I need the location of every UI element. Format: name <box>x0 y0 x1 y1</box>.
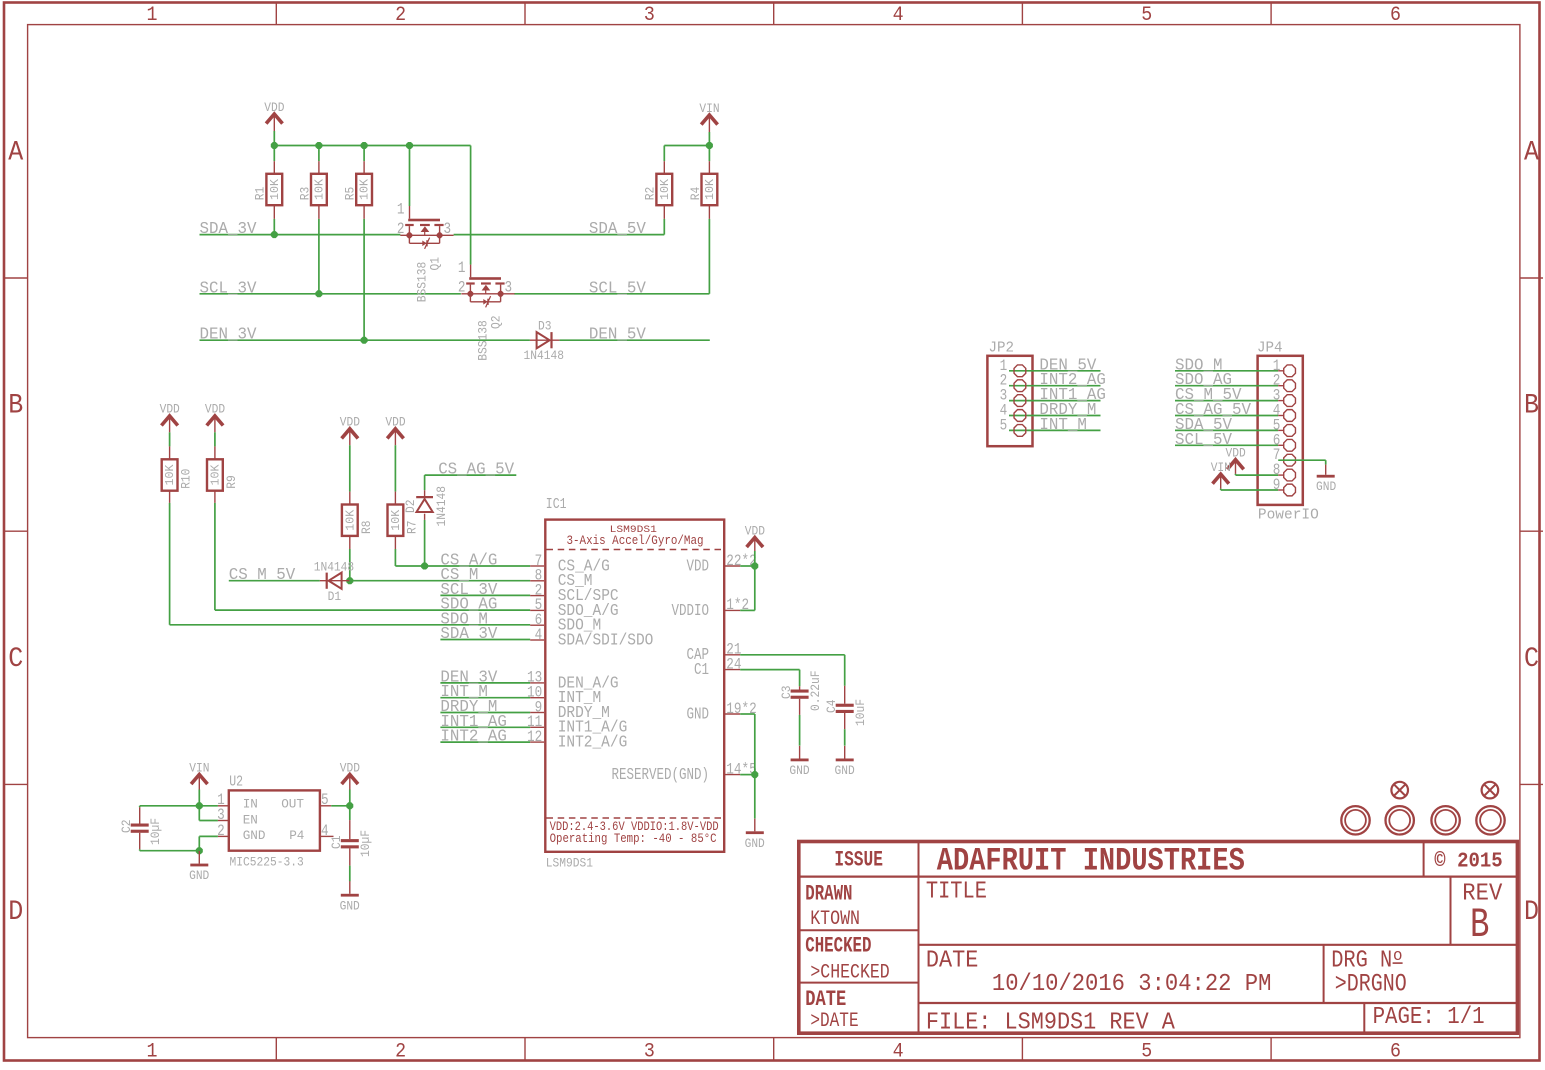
svg-text:INT2_A/G: INT2_A/G <box>558 734 628 752</box>
svg-text:10K: 10K <box>390 510 403 531</box>
svg-text:6: 6 <box>1390 1041 1401 1064</box>
svg-text:DEN_3V: DEN_3V <box>200 326 257 344</box>
svg-text:2: 2 <box>395 4 406 27</box>
svg-text:R2: R2 <box>643 187 658 201</box>
svg-text:D: D <box>8 897 23 928</box>
svg-text:GND: GND <box>789 763 809 778</box>
svg-text:1*2: 1*2 <box>726 596 749 614</box>
svg-text:C: C <box>8 644 23 675</box>
svg-text:10/10/2016 3:04:22 PM: 10/10/2016 3:04:22 PM <box>992 971 1272 998</box>
svg-text:JP2: JP2 <box>989 340 1015 357</box>
svg-text:6: 6 <box>1390 4 1401 27</box>
svg-text:5: 5 <box>1141 1041 1152 1064</box>
svg-text:D1: D1 <box>328 589 342 604</box>
svg-text:C1: C1 <box>694 661 709 679</box>
svg-text:R1: R1 <box>253 187 268 201</box>
svg-text:10K: 10K <box>164 464 177 485</box>
svg-text:R9: R9 <box>224 475 239 489</box>
svg-text:SCL_3V: SCL_3V <box>200 279 257 297</box>
svg-text:12: 12 <box>527 728 542 746</box>
svg-text:R10: R10 <box>179 469 194 489</box>
svg-text:D2: D2 <box>403 500 418 514</box>
svg-text:IC1: IC1 <box>546 496 567 513</box>
svg-text:10K: 10K <box>659 179 672 200</box>
svg-text:R8: R8 <box>359 521 374 535</box>
svg-text:GND: GND <box>687 705 710 723</box>
svg-text:RESERVED(GND): RESERVED(GND) <box>612 766 710 784</box>
svg-text:B: B <box>8 391 23 422</box>
svg-text:B: B <box>1470 901 1489 949</box>
svg-text:4: 4 <box>893 4 904 27</box>
svg-text:10K: 10K <box>269 179 282 200</box>
svg-text:5: 5 <box>1000 416 1008 434</box>
svg-text:DEN_5V: DEN_5V <box>589 326 646 344</box>
svg-text:10K: 10K <box>209 464 222 485</box>
svg-text:GND: GND <box>1316 479 1336 494</box>
svg-text:2: 2 <box>458 279 466 297</box>
svg-text:10uF: 10uF <box>853 699 868 726</box>
svg-text:R4: R4 <box>688 187 703 201</box>
svg-text:Q1: Q1 <box>428 257 443 271</box>
svg-text:GND: GND <box>243 828 266 843</box>
svg-text:C1: C1 <box>329 835 344 849</box>
svg-text:Q2: Q2 <box>489 316 504 330</box>
svg-text:10K: 10K <box>704 179 717 200</box>
svg-text:10µF: 10µF <box>148 818 163 845</box>
svg-text:INT_M: INT_M <box>1039 416 1087 434</box>
svg-text:SDA_3V: SDA_3V <box>200 220 257 238</box>
svg-text:DATE: DATE <box>926 947 978 974</box>
svg-text:JP4: JP4 <box>1257 340 1283 357</box>
svg-text:C: C <box>1524 644 1539 675</box>
svg-text:5: 5 <box>1141 4 1152 27</box>
svg-text:PAGE: 1/1: PAGE: 1/1 <box>1373 1004 1485 1031</box>
svg-text:>DRGNO: >DRGNO <box>1335 969 1407 998</box>
svg-text:GND: GND <box>835 763 855 778</box>
svg-text:1N4148: 1N4148 <box>314 559 355 574</box>
svg-text:1: 1 <box>147 1041 158 1064</box>
svg-text:DRAWN: DRAWN <box>805 882 852 907</box>
svg-text:P4: P4 <box>289 828 304 843</box>
svg-text:ISSUE: ISSUE <box>834 848 883 873</box>
svg-text:24: 24 <box>726 655 741 673</box>
svg-text:GND: GND <box>189 868 209 883</box>
svg-text:D3: D3 <box>538 319 552 334</box>
svg-text:1N4148: 1N4148 <box>434 486 449 527</box>
svg-text:B: B <box>1524 391 1539 422</box>
svg-text:2: 2 <box>395 1041 406 1064</box>
svg-text:SCL_5V: SCL_5V <box>589 279 646 297</box>
svg-text:>CHECKED: >CHECKED <box>810 962 889 985</box>
svg-text:Operating Temp: -40 - 85°C: Operating Temp: -40 - 85°C <box>550 831 717 846</box>
svg-text:OUT: OUT <box>281 797 304 812</box>
svg-text:SDA_5V: SDA_5V <box>589 220 646 238</box>
svg-text:A: A <box>1524 137 1539 168</box>
svg-text:U2: U2 <box>229 773 243 790</box>
svg-text:10µF: 10µF <box>358 830 373 857</box>
svg-text:D: D <box>1524 897 1539 928</box>
svg-text:3: 3 <box>505 279 513 297</box>
svg-text:3: 3 <box>644 1041 655 1064</box>
svg-text:GND: GND <box>745 836 765 851</box>
svg-text:TITLE: TITLE <box>926 879 987 906</box>
svg-text:SDA/SDI/SDO: SDA/SDI/SDO <box>558 631 654 649</box>
svg-text:>DATE: >DATE <box>810 1010 858 1033</box>
svg-text:VDD: VDD <box>687 557 710 575</box>
svg-text:C3: C3 <box>779 686 794 700</box>
svg-text:2: 2 <box>217 822 225 840</box>
svg-text:SCL_5V: SCL_5V <box>1175 431 1232 449</box>
svg-text:R3: R3 <box>297 187 312 201</box>
svg-text:4: 4 <box>321 822 329 840</box>
svg-text:A: A <box>8 137 23 168</box>
svg-text:INT2_AG: INT2_AG <box>440 728 507 746</box>
svg-text:DATE: DATE <box>805 987 846 1012</box>
svg-text:ADAFRUIT INDUSTRIES: ADAFRUIT INDUSTRIES <box>937 843 1245 880</box>
svg-text:3: 3 <box>444 220 452 238</box>
svg-text:4: 4 <box>893 1041 904 1064</box>
svg-text:1: 1 <box>147 4 158 27</box>
svg-text:10K: 10K <box>344 510 357 531</box>
svg-text:0.22uF: 0.22uF <box>808 671 823 712</box>
svg-text:10K: 10K <box>359 179 372 200</box>
svg-text:PowerIO: PowerIO <box>1258 507 1319 524</box>
svg-text:3-Axis Accel/Gyro/Mag: 3-Axis Accel/Gyro/Mag <box>567 533 704 548</box>
svg-text:2: 2 <box>397 220 405 238</box>
svg-text:EN: EN <box>243 812 258 827</box>
svg-text:FILE: LSM9DS1 REV A: FILE: LSM9DS1 REV A <box>926 1009 1176 1036</box>
svg-text:IN: IN <box>243 797 258 812</box>
svg-text:MIC5225-3.3: MIC5225-3.3 <box>230 855 304 870</box>
svg-text:3: 3 <box>644 4 655 27</box>
svg-text:9: 9 <box>1273 476 1281 494</box>
svg-text:© 2015: © 2015 <box>1434 851 1502 874</box>
svg-text:R7: R7 <box>404 521 419 535</box>
svg-text:LSM9DS1: LSM9DS1 <box>546 856 593 871</box>
svg-text:19*2: 19*2 <box>726 700 756 718</box>
svg-text:CHECKED: CHECKED <box>805 934 871 959</box>
svg-text:R5: R5 <box>343 187 358 201</box>
svg-text:C2: C2 <box>119 820 134 834</box>
svg-text:CS_AG_5V: CS_AG_5V <box>438 461 514 479</box>
svg-text:1: 1 <box>397 201 405 219</box>
svg-text:KTOWN: KTOWN <box>810 908 860 931</box>
svg-text:10K: 10K <box>313 179 326 200</box>
svg-text:4: 4 <box>535 626 543 644</box>
svg-text:VDDIO: VDDIO <box>672 602 710 620</box>
svg-text:5: 5 <box>321 791 329 809</box>
svg-text:1: 1 <box>458 259 466 277</box>
svg-text:C4: C4 <box>824 699 839 713</box>
svg-text:1N4148: 1N4148 <box>524 348 565 363</box>
svg-text:GND: GND <box>340 898 360 913</box>
